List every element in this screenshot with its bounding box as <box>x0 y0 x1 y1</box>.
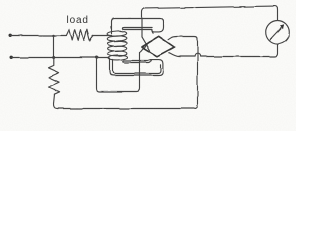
wire bridge lower-right lead <box>169 53 195 57</box>
wire bottom bus <box>77 39 198 109</box>
wire hop over vertical <box>195 54 201 57</box>
terminal T2 (lower left input) <box>9 56 12 59</box>
coil L1 winding <box>107 31 128 61</box>
wire from node C up to bridge left corner (lower lead) <box>97 42 149 92</box>
wire upper staple pair <box>122 28 152 34</box>
coil L1 bottom lead and outer frame bottom (outer line) <box>110 58 163 75</box>
resistor R1 load <box>66 29 92 40</box>
wire resistor R2 bottom to bottom bus <box>53 94 77 108</box>
wire meter top feed <box>142 6 278 37</box>
node C junction dot lower wire <box>95 56 98 59</box>
wire resistor to coil top node <box>92 35 111 37</box>
rectifier bridge D1 (diamond) <box>142 36 175 56</box>
wire junction vertical <box>53 36 55 58</box>
coil L1 top lead and outer frame top <box>112 19 164 34</box>
meter needle <box>270 26 284 41</box>
node A junction dot top wire <box>52 34 54 36</box>
wire hop to meter bottom <box>200 44 277 56</box>
wire upper input to load resistor <box>11 35 67 37</box>
wire lower input <box>11 57 109 59</box>
node B junction dot lower wire <box>52 56 55 59</box>
wire bridge upper-left lead <box>142 37 150 51</box>
frame bottom inner line <box>113 60 161 74</box>
wire bridge upper-right lead from corner down the right side <box>169 37 198 40</box>
resistor R2 (vertical) <box>49 58 60 95</box>
meter needle arrowhead <box>280 25 284 29</box>
meter M1 <box>266 21 290 45</box>
terminal T1 (upper left input) <box>9 34 12 37</box>
